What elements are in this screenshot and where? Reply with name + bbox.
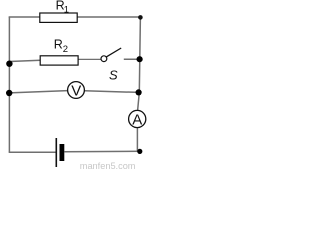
- wire R2 branch left segment: [9, 60, 40, 61]
- svg-text:1: 1: [64, 5, 69, 16]
- wire voltmeter branch right segment: [84, 91, 139, 93]
- node left R2 junction: [6, 61, 12, 67]
- wire right vertical: [137, 17, 140, 152]
- node right R2 junction: [137, 56, 143, 62]
- node bottom-right corner: [137, 149, 142, 154]
- svg-text:A: A: [132, 111, 142, 128]
- resistor R2: [40, 56, 78, 65]
- svg-text:S: S: [109, 67, 118, 82]
- battery negative plate (short thick): [60, 144, 65, 161]
- wire R2 branch middle segment (resistor to switch): [78, 58, 101, 60]
- svg-text:2: 2: [63, 44, 68, 55]
- node top-right corner: [138, 15, 143, 20]
- wire top horizontal (R1 branch): [9, 16, 141, 18]
- svg-text:V: V: [71, 82, 81, 99]
- node right voltmeter junction: [136, 89, 142, 95]
- switch S lever: [107, 48, 122, 57]
- resistor R1: [40, 13, 77, 22]
- voltmeter V: [68, 82, 85, 99]
- svg-text:manfen5.com: manfen5.com: [80, 161, 136, 171]
- wire voltmeter branch left segment: [9, 91, 67, 93]
- wire R2 branch right stub (switch to right wire): [124, 58, 140, 60]
- ammeter A: [129, 110, 146, 127]
- switch S pivot circle: [101, 56, 107, 62]
- battery positive plate (long thin): [55, 138, 57, 167]
- svg-text:R: R: [54, 38, 63, 52]
- wire left vertical: [8, 17, 10, 153]
- wire bottom left segment: [9, 151, 56, 153]
- wire bottom right segment: [64, 150, 140, 153]
- node left voltmeter junction: [6, 90, 12, 96]
